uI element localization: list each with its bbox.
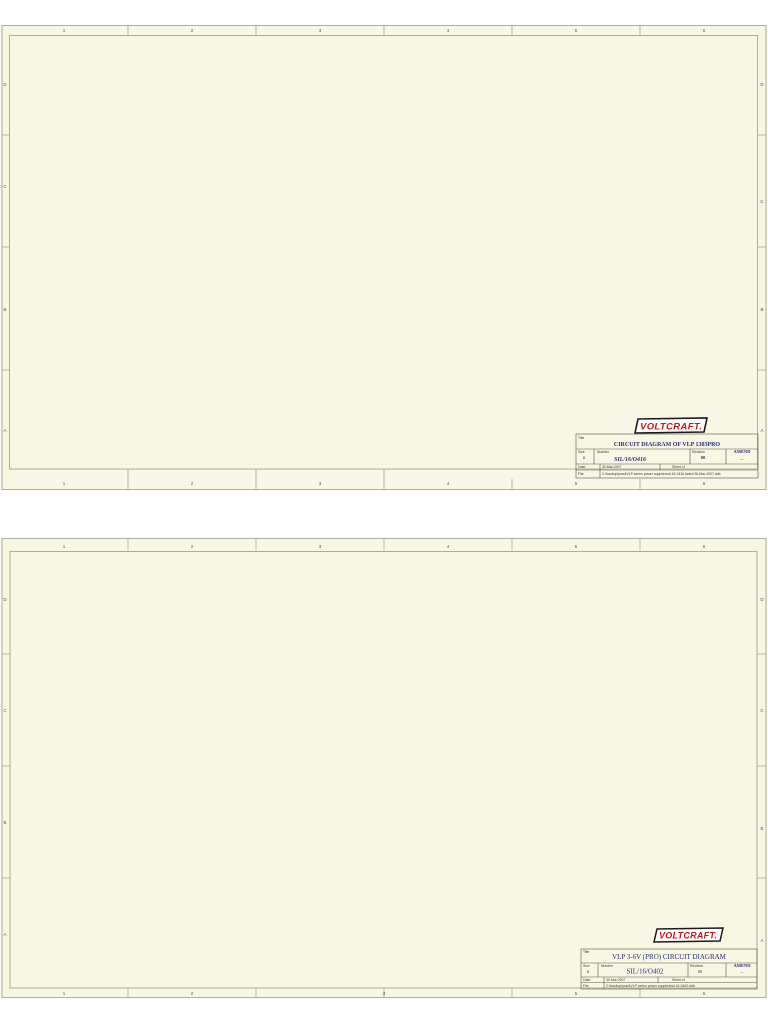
svg-text:A: A [760, 938, 763, 943]
svg-text:00: 00 [701, 455, 706, 460]
svg-text:B: B [760, 307, 763, 312]
svg-text:Number: Number [597, 450, 610, 454]
svg-text:--: -- [741, 457, 744, 462]
svg-text:Sheet of: Sheet of [672, 978, 685, 982]
sheet 1 outer frame [2, 26, 766, 490]
voltcraft logo sheet1 [635, 418, 707, 433]
svg-text:File:: File: [583, 984, 589, 988]
svg-text:Size: Size [583, 964, 590, 968]
svg-text:CIRCUIT DIAGRAM OF VLP 1303PRO: CIRCUIT DIAGRAM OF VLP 1303PRO [614, 442, 721, 448]
svg-text:Title: Title [578, 436, 584, 440]
svg-text:SIL/16/O402: SIL/16/O402 [627, 968, 664, 976]
svg-text:Title: Title [583, 950, 589, 954]
sheet 1 inner frame [10, 36, 758, 470]
sheet 2 inner frame [10, 552, 757, 989]
svg-text:B: B [3, 307, 6, 312]
voltcraft logo sheet2 [654, 928, 723, 942]
sheet 2 title block [581, 949, 757, 989]
svg-text:File:: File: [578, 472, 584, 476]
svg-text:C:\backup\prasi\VLP series pow: C:\backup\prasi\VLP series power supplie… [606, 984, 695, 988]
svg-text:00: 00 [698, 969, 703, 974]
sheet 2 outer frame [2, 539, 766, 998]
svg-text:Size: Size [578, 450, 585, 454]
svg-text:Date:: Date: [583, 978, 591, 982]
sheet 2 grid labels [3, 544, 764, 996]
svg-text:Number: Number [601, 964, 614, 968]
svg-text:AMEND: AMEND [734, 963, 752, 968]
sheet 2 ticks [2, 539, 766, 998]
svg-text:Revision: Revision [692, 450, 705, 454]
svg-text:VOLTCRAFT.: VOLTCRAFT. [659, 931, 717, 941]
svg-text:Date:: Date: [578, 465, 586, 469]
svg-text:AMEND: AMEND [734, 449, 752, 454]
sheet 1 column ticks top [2, 26, 766, 490]
svg-text:B: B [760, 826, 763, 831]
sheet 2 background [1, 538, 767, 998]
svg-text:Sheet of: Sheet of [672, 465, 685, 469]
svg-text:--: -- [741, 970, 744, 975]
svg-text:SIL/16/O416: SIL/16/O416 [614, 457, 646, 463]
svg-text:A: A [3, 932, 6, 937]
svg-text:VOLTCRAFT.: VOLTCRAFT. [640, 422, 702, 433]
svg-text:A: A [760, 428, 763, 433]
sheet 1 background [1, 25, 767, 490]
svg-text:B: B [3, 820, 6, 825]
svg-text:Revision: Revision [690, 964, 703, 968]
svg-text:30-Mar-2007: 30-Mar-2007 [606, 978, 626, 982]
svg-text:A: A [3, 428, 6, 433]
sheet 1 grid labels [3, 28, 764, 486]
svg-text:30-Mar-2007: 30-Mar-2007 [602, 465, 622, 469]
svg-text:VLP 3-6V (PRO) CIRCUIT DIAGRAM: VLP 3-6V (PRO) CIRCUIT DIAGRAM [612, 953, 727, 961]
svg-text:C:\backup\prasi\VLP series pow: C:\backup\prasi\VLP series power supplie… [602, 472, 721, 476]
sheet 1 title block [576, 434, 758, 478]
